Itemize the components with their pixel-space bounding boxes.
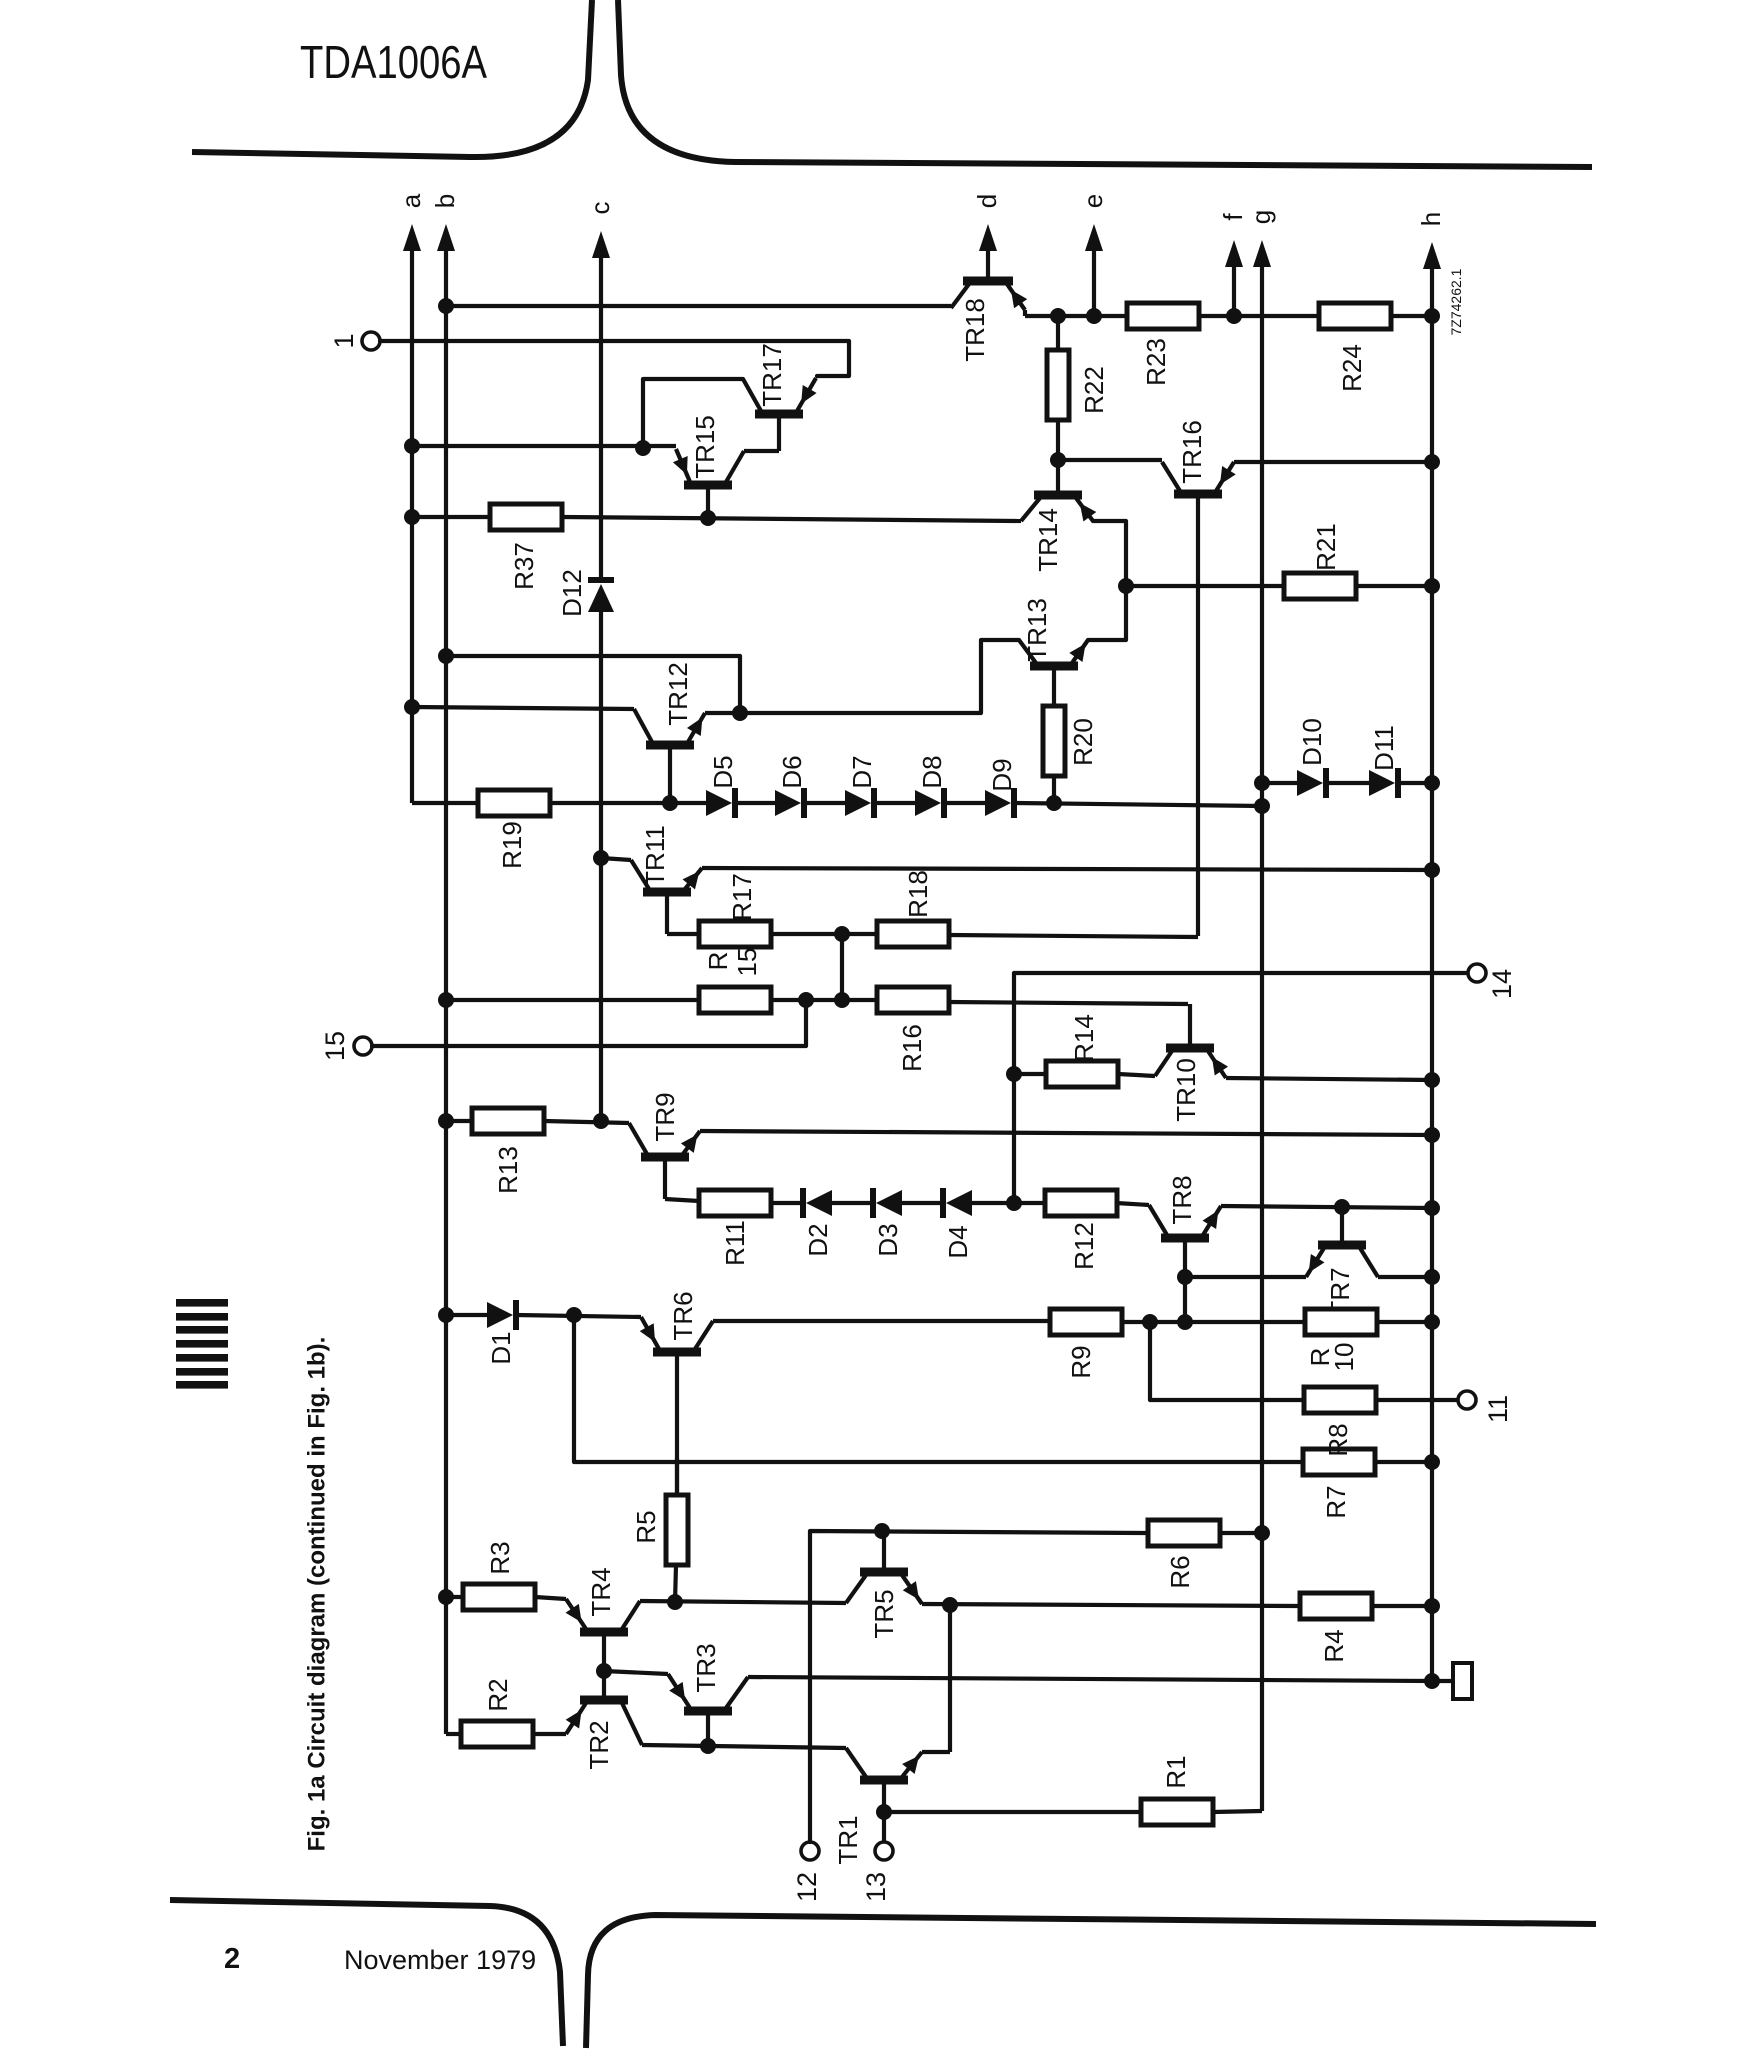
svg-text:TR18: TR18 bbox=[960, 298, 990, 362]
wire R6 to g bbox=[1219, 1525, 1270, 1541]
svg-text:TR13: TR13 bbox=[1022, 598, 1052, 662]
wire b to R15 bbox=[438, 992, 699, 1008]
diode D11 bbox=[1369, 725, 1399, 798]
wire R37 to TR15 base and TR14 collector bbox=[562, 510, 1021, 526]
tab to Fig 1b bbox=[1453, 1663, 1472, 1699]
wire TR8 emitter to TR7 base node to h bbox=[1221, 1199, 1440, 1216]
wire R8 to pin 11 bbox=[1376, 1398, 1458, 1402]
wire R21 node to R21 bbox=[1126, 584, 1284, 588]
wire TR4 base to TR3 emitter bbox=[596, 1663, 668, 1679]
wire a elbow to R19 bbox=[412, 801, 478, 805]
transistor TR3 bbox=[668, 1643, 748, 1745]
resistor R5 bbox=[631, 1458, 688, 1602]
resistor R12 bbox=[1045, 1190, 1117, 1270]
wire TR11 emitter to h bbox=[702, 862, 1440, 878]
svg-text:R9: R9 bbox=[1066, 1345, 1096, 1378]
resistor R2 bbox=[461, 1678, 533, 1747]
wire R9 to TR8 base node to R10 bbox=[1122, 1314, 1305, 1330]
svg-text:TR15: TR15 bbox=[690, 415, 720, 479]
wire TR1 base node to R1 bbox=[876, 1804, 1141, 1820]
wire R9 node down to R8 bbox=[1150, 1322, 1304, 1400]
diode D6 bbox=[775, 755, 807, 818]
svg-text:R7: R7 bbox=[1321, 1485, 1351, 1518]
svg-text:R16: R16 bbox=[897, 1024, 927, 1072]
transistor TR11 bbox=[631, 825, 702, 934]
svg-text:15: 15 bbox=[732, 948, 762, 977]
wire TR3 collector to tab node on h bbox=[748, 1673, 1440, 1689]
pin 15 bbox=[320, 1031, 372, 1061]
net c (rail with arrow, through D12, ends at R13 wire) bbox=[585, 202, 615, 1122]
diode D2 bbox=[803, 1188, 833, 1257]
wire D10 to D11 bbox=[1326, 781, 1369, 785]
wire TR1 emitter to TR5 emitter riser bbox=[922, 1750, 950, 1754]
wire TR7 collector to h bbox=[1378, 1269, 1440, 1285]
wire TR17 collector loop to TR15 emitter node bbox=[643, 379, 743, 448]
pin 12 bbox=[792, 1842, 822, 1902]
transistor TR13 bbox=[1019, 598, 1088, 706]
resistor R14 bbox=[1014, 1014, 1118, 1087]
diode D1 bbox=[486, 1300, 516, 1365]
wire TR2 collector to TR3 base to TR1 collector bbox=[642, 1738, 846, 1754]
footer rule left with curve down bbox=[170, 1900, 563, 2046]
pin 14 bbox=[1468, 964, 1517, 999]
svg-text:D11: D11 bbox=[1369, 725, 1399, 771]
svg-text:10: 10 bbox=[1329, 1343, 1359, 1372]
wire pin 15 to R15-R16 node bbox=[372, 1000, 806, 1046]
wire TR16 emitter to h bbox=[1234, 454, 1440, 470]
diode D5 bbox=[706, 755, 738, 818]
footer rule right with curve up bbox=[586, 1915, 1596, 2048]
net g (rail with arrow, ends at R1 wire) bbox=[1246, 210, 1276, 1811]
resistor R17 bbox=[699, 873, 771, 947]
resistor R7 bbox=[1303, 1449, 1375, 1519]
resistor R24 bbox=[1319, 303, 1391, 392]
svg-text:c: c bbox=[585, 202, 615, 215]
node R22-TR14-TR16 bbox=[1050, 452, 1162, 468]
svg-text:R1: R1 bbox=[1161, 1755, 1191, 1788]
wire TR6 collector hook to R7 bbox=[574, 1315, 1303, 1462]
svg-text:D1: D1 bbox=[486, 1331, 516, 1364]
wire R15 to R16 with nodes bbox=[771, 992, 877, 1008]
svg-text:R21: R21 bbox=[1311, 523, 1341, 571]
svg-text:R11: R11 bbox=[720, 1220, 750, 1266]
svg-text:11: 11 bbox=[1483, 1395, 1513, 1423]
resistor R23 bbox=[1127, 303, 1199, 386]
svg-text:b: b bbox=[430, 194, 460, 208]
svg-text:TR4: TR4 bbox=[586, 1567, 616, 1616]
page number 2 bbox=[224, 1943, 240, 1975]
resistor R6 bbox=[1148, 1520, 1220, 1589]
svg-text:R4: R4 bbox=[1319, 1629, 1349, 1662]
svg-text:TR8: TR8 bbox=[1167, 1175, 1197, 1224]
wire R17 to R18 node bbox=[771, 926, 877, 942]
net e (rail with arrow, ends at R23 wire) bbox=[1078, 194, 1108, 324]
svg-text:D3: D3 bbox=[873, 1223, 903, 1256]
diode D10 bbox=[1297, 718, 1327, 798]
wire TR18 emitter to R23 and R24 to h bbox=[1025, 308, 1440, 324]
svg-text:R22: R22 bbox=[1079, 366, 1109, 414]
svg-text:R20: R20 bbox=[1068, 718, 1098, 766]
wire pin 12 riser to R6 bbox=[810, 1523, 1149, 1842]
wire pin 13 riser bbox=[882, 1812, 886, 1842]
svg-text:7Z74262.1: 7Z74262.1 bbox=[1448, 268, 1464, 335]
wire a to R37 bbox=[404, 509, 490, 525]
svg-text:TR1: TR1 bbox=[833, 1815, 863, 1864]
svg-text:e: e bbox=[1078, 194, 1108, 208]
transistor TR4 bbox=[566, 1567, 640, 1671]
wire D8 to D9 bbox=[944, 801, 985, 805]
resistor R10 bbox=[1305, 1309, 1377, 1371]
svg-text:D9: D9 bbox=[987, 758, 1017, 791]
svg-text:R37: R37 bbox=[509, 542, 539, 590]
diode D12 bbox=[557, 569, 614, 617]
wire R4 to h bbox=[1372, 1598, 1440, 1614]
node R17-R18 to R15-R16 riser bbox=[840, 934, 844, 1000]
net h (rail with arrow, ends at tab wire) bbox=[1416, 212, 1446, 1680]
wire R14 to TR10 collector bbox=[1118, 1074, 1155, 1076]
drawing number 7Z74262.1 bbox=[1448, 268, 1464, 335]
sidebar tab bars bbox=[176, 1299, 228, 1389]
pin 11 bbox=[1458, 1391, 1513, 1423]
net f (rail with arrow, ends at R23-R24 wire) bbox=[1218, 213, 1248, 324]
svg-text:R18: R18 bbox=[903, 870, 933, 918]
wire TR7 emitter to TR8 base bbox=[1177, 1269, 1306, 1285]
svg-text:h: h bbox=[1416, 212, 1446, 226]
svg-text:R23: R23 bbox=[1141, 338, 1171, 386]
wire c to TR11 collector bbox=[593, 850, 631, 866]
svg-text:D12: D12 bbox=[557, 569, 587, 617]
net b (rail with arrow, ends at R2 wire) bbox=[430, 194, 460, 1734]
resistor R13 bbox=[472, 1108, 544, 1194]
transistor TR12 bbox=[634, 662, 705, 803]
transistor TR5 bbox=[846, 1531, 922, 1639]
svg-text:D2: D2 bbox=[803, 1223, 833, 1256]
svg-text:TR12: TR12 bbox=[663, 662, 693, 726]
svg-text:D7: D7 bbox=[847, 755, 877, 788]
wire D3 to D4 bbox=[902, 1201, 943, 1205]
svg-text:TR5: TR5 bbox=[869, 1589, 899, 1638]
svg-text:f: f bbox=[1218, 213, 1248, 221]
resistor R18 bbox=[877, 870, 949, 947]
resistor R16 bbox=[877, 987, 949, 1072]
svg-text:d: d bbox=[972, 194, 1002, 208]
svg-text:TR9: TR9 bbox=[650, 1092, 680, 1141]
svg-text:g: g bbox=[1246, 210, 1276, 224]
svg-text:D10: D10 bbox=[1297, 718, 1327, 766]
wire D7 to D8 bbox=[874, 801, 915, 805]
wire D2 to D3 bbox=[832, 1201, 873, 1205]
svg-text:TR2: TR2 bbox=[584, 1720, 614, 1769]
resistor R8 bbox=[1304, 1387, 1376, 1457]
svg-text:TR6: TR6 bbox=[668, 1291, 698, 1340]
diode D7 bbox=[845, 755, 877, 818]
svg-text:TR10: TR10 bbox=[1171, 1058, 1201, 1122]
svg-text:TR14: TR14 bbox=[1033, 508, 1063, 572]
wire TR5 emitter to R4 and down to TR1 bbox=[922, 1597, 1300, 1752]
wire R3 to TR4 emitter bbox=[535, 1597, 566, 1599]
svg-text:R: R bbox=[703, 952, 733, 971]
svg-text:R19: R19 bbox=[497, 821, 527, 869]
wire R7 to h bbox=[1375, 1454, 1440, 1470]
resistor R20 bbox=[1043, 706, 1098, 803]
svg-text:November 1979: November 1979 bbox=[344, 1945, 536, 1975]
resistor R21 bbox=[1284, 523, 1356, 599]
transistor TR16 bbox=[1162, 420, 1236, 936]
svg-text:D5: D5 bbox=[708, 755, 738, 788]
svg-text:14: 14 bbox=[1487, 969, 1517, 999]
wire R10 to h bbox=[1377, 1314, 1440, 1330]
figure caption Fig. 1a Circuit diagram (continued in Fig. 1b). bbox=[304, 1337, 331, 1852]
transistor TR9 bbox=[629, 1092, 700, 1199]
transistor TR8 bbox=[1149, 1175, 1221, 1322]
wire TR15 collector to TR17 base bbox=[744, 414, 779, 451]
wire R2 to TR2 emitter bbox=[533, 1732, 566, 1736]
net a (rail with arrow, ends at R19 wire) bbox=[396, 193, 426, 803]
wire pin 1 to TR17 emitter bbox=[380, 341, 849, 376]
transistor TR15 bbox=[673, 415, 744, 519]
transistor TR10 bbox=[1155, 1004, 1228, 1122]
date November 1979 bbox=[344, 1945, 536, 1975]
wire D5 to D6 bbox=[735, 801, 775, 805]
svg-text:12: 12 bbox=[792, 1872, 822, 1902]
net d (rail with arrow to TR18 base) bbox=[972, 194, 1002, 281]
svg-text:D8: D8 bbox=[917, 755, 947, 788]
wire D1 to TR6 emitter bbox=[516, 1307, 641, 1323]
transistor TR17 bbox=[743, 343, 817, 414]
svg-text:R17: R17 bbox=[727, 873, 757, 921]
wire b to TR12 emitter and TR13 collector bbox=[438, 640, 1019, 721]
svg-text:a: a bbox=[396, 193, 426, 208]
svg-text:R3: R3 bbox=[485, 1541, 515, 1574]
svg-text:15: 15 bbox=[320, 1031, 350, 1061]
wire node to R12 bbox=[1014, 1201, 1046, 1205]
wire R19 to diode chain bbox=[550, 795, 706, 811]
wire b to R3 bbox=[438, 1589, 463, 1605]
wire TR6 emitter to R9 bbox=[713, 1319, 1050, 1323]
wire D4 to pin14 riser node bbox=[972, 1201, 1014, 1205]
wire b to D1 bbox=[438, 1307, 487, 1323]
resistor R4 bbox=[1300, 1593, 1372, 1663]
wire TR14 emitter to TR13 collector bbox=[1088, 521, 1134, 640]
svg-text:TR17: TR17 bbox=[757, 343, 787, 407]
diode D4 bbox=[943, 1188, 973, 1259]
wire TR9 emitter to h bbox=[700, 1127, 1440, 1143]
transistor TR14 bbox=[1021, 460, 1096, 572]
diode D9 bbox=[985, 758, 1017, 818]
wire R13 to c node to TR9 collector bbox=[544, 1113, 629, 1129]
wire b to TR18 collector bbox=[438, 298, 951, 314]
svg-text:R14: R14 bbox=[1069, 1014, 1099, 1062]
wire R11 to D2 bbox=[771, 1201, 803, 1205]
resistor R37 bbox=[490, 504, 562, 590]
wire TR11 base to R17 bbox=[667, 932, 699, 936]
header rule left with curve up bbox=[192, 0, 592, 157]
wire D11 to h bbox=[1398, 775, 1440, 791]
wire D9 to R20 node to g bbox=[1014, 795, 1270, 814]
svg-text:R2: R2 bbox=[483, 1678, 513, 1711]
svg-text:TR3: TR3 bbox=[691, 1643, 721, 1692]
svg-text:R12: R12 bbox=[1069, 1222, 1099, 1270]
resistor R9 bbox=[1050, 1309, 1122, 1379]
wire R1 to g elbow bbox=[1213, 1811, 1262, 1812]
diode D3 bbox=[873, 1188, 903, 1257]
transistor TR1 bbox=[833, 1748, 922, 1865]
wire R21 to h bbox=[1356, 578, 1440, 594]
resistor R1 bbox=[1141, 1755, 1213, 1825]
wire TR9 base to R11 bbox=[665, 1199, 699, 1201]
diode D8 bbox=[915, 755, 947, 818]
resistor R19 bbox=[478, 790, 550, 869]
svg-text:TDA1006A: TDA1006A bbox=[300, 36, 487, 88]
resistor R15 bbox=[699, 948, 771, 1013]
svg-text:TR16: TR16 bbox=[1177, 420, 1207, 484]
wire D6 to D7 bbox=[804, 801, 845, 805]
svg-text:D4: D4 bbox=[943, 1225, 973, 1258]
wire TR10 emitter to h bbox=[1226, 1072, 1440, 1088]
svg-text:R6: R6 bbox=[1165, 1555, 1195, 1588]
header rule right with curve down bbox=[618, 0, 1592, 167]
svg-text:D6: D6 bbox=[777, 755, 807, 788]
transistor TR18 bbox=[951, 281, 1027, 362]
page title TDA1006A bbox=[300, 36, 487, 88]
wire g to D10 bbox=[1254, 775, 1297, 791]
svg-text:R24: R24 bbox=[1337, 344, 1367, 392]
wire b elbow to R2 bbox=[446, 1732, 461, 1736]
pin 1 bbox=[329, 332, 380, 350]
resistor R22 bbox=[1047, 316, 1109, 460]
wire a to TR15 emitter bbox=[404, 438, 676, 456]
svg-text:R5: R5 bbox=[631, 1510, 661, 1543]
wire pin 14 net riser bbox=[1006, 973, 1466, 1211]
svg-text:13: 13 bbox=[861, 1872, 891, 1902]
wire R18 to TR16 base elbow bbox=[949, 935, 1198, 937]
pin 13 bbox=[861, 1842, 893, 1902]
transistor TR2 bbox=[566, 1671, 642, 1770]
transistor TR7 bbox=[1306, 1207, 1378, 1317]
wire R16 to TR10 base bbox=[949, 1002, 1188, 1004]
wire b to R13 bbox=[438, 1113, 472, 1129]
resistor R11 bbox=[699, 1190, 771, 1266]
svg-text:Fig. 1a Circuit diagram (cont: Fig. 1a Circuit diagram (continued in Fi… bbox=[304, 1337, 331, 1852]
wire tab lead bbox=[1432, 1679, 1453, 1683]
wire R12 to TR8 collector bbox=[1116, 1203, 1149, 1205]
wire a to TR12 collector bbox=[404, 699, 634, 715]
wire TR4 collector to R5 node to TR5 collector bbox=[640, 1594, 846, 1610]
svg-text:TR11: TR11 bbox=[640, 825, 670, 887]
svg-text:R13: R13 bbox=[493, 1146, 523, 1194]
transistor TR6 bbox=[640, 1291, 713, 1495]
svg-text:R8: R8 bbox=[1323, 1423, 1353, 1456]
svg-text:1: 1 bbox=[329, 333, 359, 348]
resistor R3 bbox=[463, 1541, 535, 1610]
svg-text:2: 2 bbox=[224, 1943, 240, 1975]
